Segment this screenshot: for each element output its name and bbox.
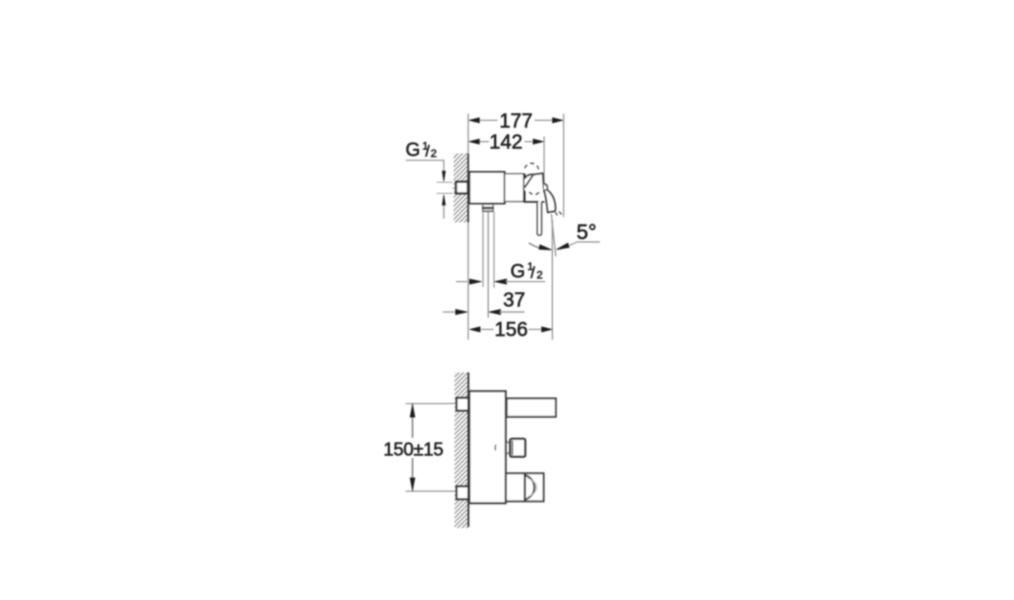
G1/2 leader line bbox=[406, 160, 444, 170]
bottom edge right of pin bbox=[542, 201, 545, 203]
body rect bbox=[469, 391, 505, 503]
wall hatch top figure bbox=[454, 154, 468, 223]
vertical reference line / 156 right extension bbox=[551, 220, 553, 340]
dimension 177 bbox=[469, 110, 564, 132]
svg-text:2: 2 bbox=[431, 148, 437, 160]
arc arrows bbox=[539, 245, 552, 250]
main body bbox=[469, 172, 504, 204]
right extension line 177 bbox=[563, 114, 565, 217]
bottom connection square bbox=[457, 486, 469, 499]
left extension line (wall face) bbox=[467, 114, 469, 154]
pipe walls bbox=[482, 211, 484, 287]
lever bar bbox=[507, 398, 556, 416]
dashed arc lower bbox=[529, 190, 540, 194]
logo mark bbox=[494, 445, 497, 451]
svg-text:156: 156 bbox=[495, 319, 528, 341]
5deg leader bbox=[569, 242, 600, 246]
svg-text:37: 37 bbox=[503, 289, 525, 311]
knuckle bbox=[544, 184, 548, 191]
svg-text:142: 142 bbox=[489, 132, 522, 154]
cartridge housing bbox=[505, 174, 524, 202]
G 1/2 label top-left bbox=[406, 140, 437, 161]
svg-text:177: 177 bbox=[499, 110, 532, 132]
outlet outer gray arc bbox=[528, 478, 537, 497]
G1/2 bottom arrow (up) bbox=[442, 195, 445, 206]
dimension 156 bbox=[469, 319, 552, 341]
150±15 dimension bbox=[406, 403, 456, 405]
cartridge dark right edge bbox=[523, 174, 525, 202]
dashes below grip bbox=[556, 213, 558, 216]
svg-text:/: / bbox=[531, 265, 536, 282]
angle arc right bbox=[557, 246, 569, 250]
svg-text:G: G bbox=[510, 262, 525, 283]
svg-text:150±15: 150±15 bbox=[383, 439, 443, 460]
G1/2 top arrow (down) bbox=[442, 171, 445, 182]
fitting extension lines bbox=[437, 181, 453, 183]
inlet fitting G1/2 bbox=[456, 182, 468, 194]
dimension 142 bbox=[469, 132, 544, 154]
wall hatch bottom figure bbox=[455, 372, 469, 528]
5 degree: dash at spout axis bbox=[550, 214, 553, 219]
fitting stub bbox=[453, 187, 457, 189]
outlet chord line bbox=[524, 474, 526, 501]
outlet pin below lever bbox=[537, 202, 541, 235]
outlet dome arc bbox=[525, 475, 534, 500]
svg-text:G: G bbox=[406, 140, 421, 161]
pipe center line bbox=[487, 211, 489, 317]
dash near knuckle bbox=[545, 184, 547, 186]
svg-text:2: 2 bbox=[537, 270, 543, 282]
G 1/2 label bottom bbox=[510, 261, 542, 283]
knob (diverter) bbox=[510, 439, 525, 457]
lever cap bbox=[524, 173, 543, 190]
wall face line top bbox=[467, 154, 469, 223]
dashed lever open position upper bbox=[525, 163, 539, 171]
outlet block bbox=[506, 473, 544, 501]
lever cap diagonal bbox=[525, 175, 534, 188]
knob neck bbox=[507, 441, 511, 443]
top connection square bbox=[457, 398, 469, 411]
G1/2 dim line bottom bbox=[456, 281, 467, 283]
angle arc left bbox=[529, 243, 551, 250]
collar below body bbox=[483, 204, 493, 211]
svg-text:5°: 5° bbox=[577, 221, 597, 244]
tilted 5deg axis line bbox=[552, 220, 556, 257]
bottom edge under lever bbox=[524, 201, 539, 203]
right extension line 142 bbox=[543, 136, 545, 190]
lever grip (spout shape) bbox=[544, 188, 556, 212]
wall face line bottom bbox=[467, 372, 469, 527]
